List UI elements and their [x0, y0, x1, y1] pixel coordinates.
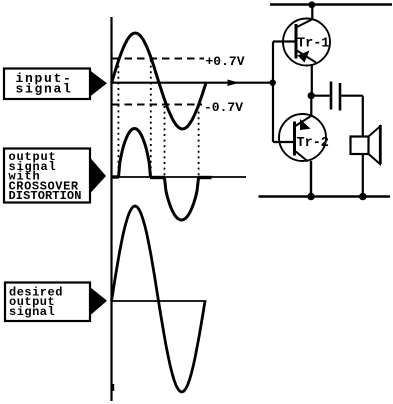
waveform: output positive hump [119, 129, 151, 178]
svg-text:-0.7V: -0.7V [204, 100, 243, 115]
node: Tr-1 collector on rail [308, 1, 315, 8]
waveform: desired output axis [112, 300, 207, 302]
waveform: input signal sine [112, 33, 207, 129]
waveform: output with crossover distortion, axis [112, 176, 247, 178]
svg-text:signal: signal [9, 305, 55, 319]
wire: base bus vertical [272, 42, 274, 143]
node: output junction [308, 92, 315, 99]
node: input junction [270, 80, 276, 86]
dotted guide line at +0.7V rise crossing [117, 60, 119, 176]
svg-text:+0.7V: +0.7V [206, 54, 245, 69]
svg-text:Tr-1: Tr-1 [297, 37, 329, 52]
svg-text:DISTORTION: DISTORTION [9, 189, 82, 203]
vertical axis [110, 17, 112, 401]
axis tick artifact [112, 384, 114, 391]
ground rail (bottom) [259, 195, 391, 198]
transistor Tr-1 [273, 5, 330, 96]
label box: desired output signal [5, 283, 107, 322]
svg-text:Tr-2: Tr-2 [297, 136, 329, 151]
dotted guide line at -0.7V fall crossing [164, 106, 166, 177]
wire: input signal axis to base bus [112, 80, 273, 87]
label box: input-signal [4, 69, 107, 100]
waveform: output with crossover distortion, flat zero segments [112, 175, 120, 178]
transistor Tr-2 [273, 96, 329, 197]
-0.7V dashed level [112, 100, 243, 115]
waveform: desired output sine [112, 206, 206, 392]
node: speaker return on rail [359, 193, 367, 201]
supply rail (top) [270, 3, 392, 6]
node: Tr-2 collector on rail [307, 193, 315, 201]
+0.7V dashed level [112, 54, 245, 69]
waveform: output negative hump [165, 178, 199, 220]
dotted guide line at -0.7V rise crossing [198, 106, 200, 177]
dotted guide line at +0.7V fall crossing [150, 60, 152, 176]
capacitor [311, 82, 363, 111]
label box: output signal with CROSSOVER DISTORTION [4, 149, 106, 204]
speaker [351, 96, 381, 197]
svg-text:signal: signal [16, 81, 73, 96]
